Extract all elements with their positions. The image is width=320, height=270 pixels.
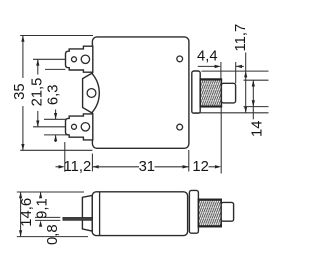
extension line collar bottom (194, 112, 269, 114)
extension line body top (20, 35, 93, 37)
svg-text:11,7: 11,7 (233, 24, 249, 52)
svg-text:4,4: 4,4 (197, 49, 218, 65)
extension line bottom tab hole centerline (33, 126, 65, 128)
push button (top view) (221, 83, 235, 103)
threaded bushing (top view) (200, 79, 221, 107)
extension line blade bottom (35, 219, 60, 221)
svg-text:0,8: 0,8 (45, 224, 61, 245)
svg-text:35: 35 (12, 83, 28, 99)
extension line thread top (244, 79, 269, 81)
svg-text:11,2: 11,2 (64, 159, 92, 175)
svg-text:31: 31 (139, 159, 155, 175)
extension line top tab hole centerline (33, 58, 65, 60)
extension line bottom tab lower edge (44, 134, 69, 136)
boss hole (87, 89, 96, 98)
dimension 31 line (91, 154, 93, 172)
terminal blade (side view) (63, 217, 92, 220)
dimension 9,1 line (40, 192, 42, 198)
mounting collar (side view) (189, 190, 198, 233)
extension line thread end long (220, 107, 222, 173)
dimension 6,3 line (55, 110, 57, 120)
extension line blade top (35, 216, 60, 218)
dimension 4,4 line (198, 65, 215, 67)
extension line body bottom (20, 149, 92, 151)
dimension 14 line (252, 80, 254, 119)
extension line top tab lower edge (45, 68, 65, 70)
dimension 14,6 line (20, 192, 22, 237)
top view body (92, 37, 188, 148)
extension line side body top (17, 191, 84, 193)
top terminal tab (66, 46, 93, 72)
side view end cap (82, 195, 92, 231)
dimension 35 line (22, 36, 24, 79)
extension line body right (188, 150, 190, 172)
extension line side body bottom (17, 236, 88, 238)
dimension 21,5 line (37, 59, 39, 74)
top tab small hole (72, 57, 77, 62)
reset button boss (bump on left edge) (83, 73, 100, 113)
bottom dimension row: tail of 11,2 (56, 166, 60, 168)
extension line button end (235, 62, 237, 83)
svg-text:6,3: 6,3 (46, 85, 62, 106)
svg-text:12: 12 (192, 159, 208, 175)
svg-text:21,5: 21,5 (30, 78, 46, 107)
svg-text:14,6: 14,6 (19, 198, 35, 227)
extension line thread end (220, 62, 222, 79)
mounting collar (top view) (192, 71, 200, 113)
side view front face line (99, 192, 101, 235)
bottom right rivet hole (177, 124, 183, 130)
threaded bushing (side view) (198, 199, 221, 226)
bottom tab large hole (81, 123, 89, 131)
top right rivet hole (177, 56, 183, 62)
svg-text:9,1: 9,1 (34, 198, 50, 219)
side view body (92, 192, 187, 236)
bottom tab small hole (72, 124, 77, 129)
extension line thread bottom (244, 106, 269, 108)
extension line tab end (64, 142, 66, 172)
bottom terminal tab (66, 114, 93, 140)
extension line collar top (202, 70, 269, 72)
dimension 11,7 line (245, 53, 247, 113)
extension line bottom tab upper edge (44, 118, 65, 120)
top tab large hole (81, 55, 89, 63)
svg-text:14: 14 (250, 121, 266, 137)
push button (side view) (221, 202, 233, 221)
